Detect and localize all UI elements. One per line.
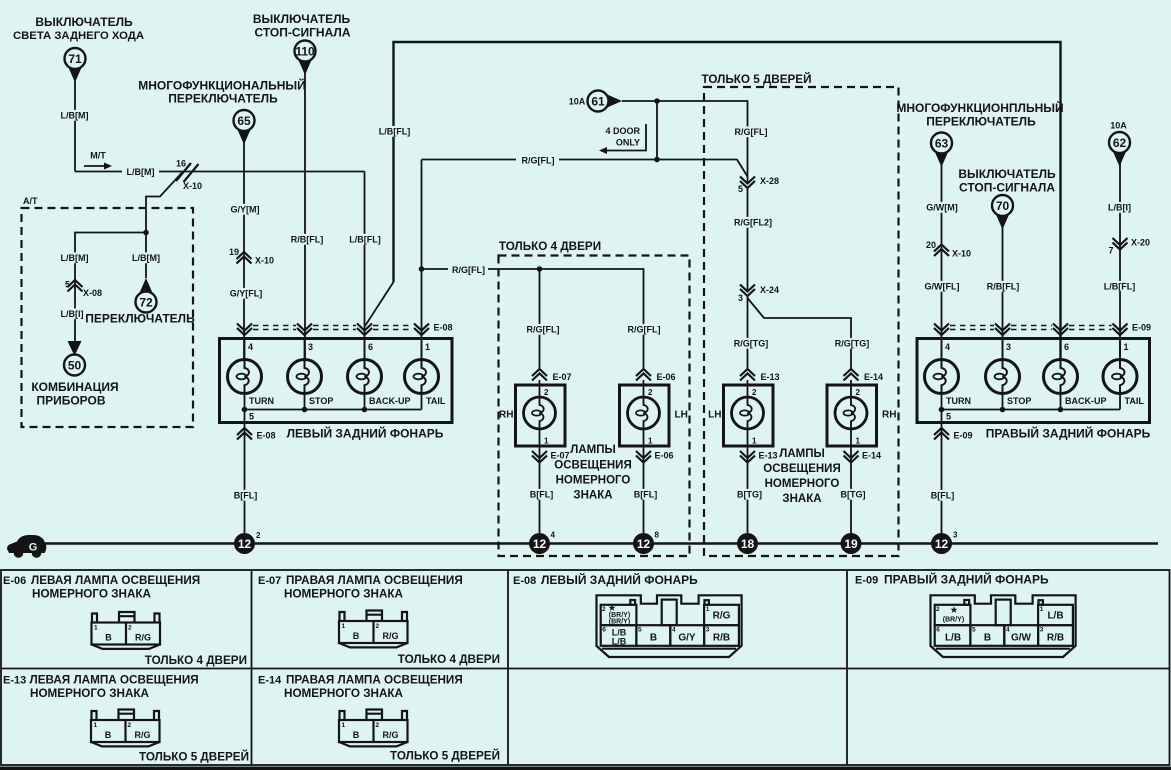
label L/B[I] bbox=[1106, 202, 1133, 213]
svg-text:TURN: TURN bbox=[946, 396, 971, 406]
svg-text:★: ★ bbox=[950, 606, 958, 615]
svg-text:B[FL]: B[FL] bbox=[530, 490, 554, 500]
connector E-06 bottom chevron bbox=[636, 451, 674, 463]
wire through lamp bbox=[747, 380, 749, 397]
wire bulb common bbox=[245, 409, 422, 411]
svg-text:12: 12 bbox=[637, 537, 651, 551]
junction at E-07 branch bbox=[537, 266, 543, 272]
svg-text:4: 4 bbox=[248, 342, 253, 352]
label L/B[I] bbox=[58, 308, 85, 319]
label B[FL] bbox=[232, 490, 259, 501]
svg-text:12: 12 bbox=[533, 537, 547, 551]
svg-text:R/G[FL]: R/G[FL] bbox=[628, 325, 661, 335]
svg-text:1: 1 bbox=[856, 437, 861, 446]
connector E-14 bottom chevron bbox=[844, 451, 882, 463]
wire branch to A/T bbox=[146, 172, 183, 279]
inline connector X-10 pin 16 bbox=[176, 159, 202, 192]
svg-text:71: 71 bbox=[68, 52, 82, 66]
wire below lamp bbox=[747, 429, 749, 534]
fuse 61 10A bbox=[569, 91, 622, 112]
svg-text:(BR/Y): (BR/Y) bbox=[609, 619, 630, 626]
label R/B[FL] right bbox=[985, 281, 1022, 292]
wire G/W from 63 to right lamp TURN bbox=[941, 164, 943, 361]
svg-text:4: 4 bbox=[551, 531, 556, 540]
svg-text:6: 6 bbox=[936, 627, 940, 634]
label L/B[M] on wire bbox=[122, 164, 159, 178]
svg-text:ВЫКЛЮЧАТЕЛЬ: ВЫКЛЮЧАТЕЛЬ bbox=[35, 15, 133, 29]
svg-text:ПРАВЫЙ ЗАДНИЙ ФОНАРЬ: ПРАВЫЙ ЗАДНИЙ ФОНАРЬ bbox=[986, 426, 1151, 441]
svg-text:RH: RH bbox=[882, 410, 896, 421]
wire L/B backup to left lamp bbox=[364, 172, 366, 361]
cell E-08 left tail lamp bbox=[513, 572, 698, 587]
svg-text:G/Y: G/Y bbox=[678, 633, 696, 644]
svg-text:72: 72 bbox=[139, 296, 153, 310]
svg-text:R/G[FL]: R/G[FL] bbox=[452, 265, 485, 275]
wire R/B from 70 to right lamp STOP bbox=[1002, 226, 1004, 360]
component label: stop light switch bbox=[253, 12, 351, 40]
label G/W[M] bbox=[927, 202, 957, 213]
svg-text:B[TG]: B[TG] bbox=[737, 490, 762, 500]
svg-text:L/B[I]: L/B[I] bbox=[1108, 203, 1131, 213]
svg-text:G/W[M]: G/W[M] bbox=[926, 203, 958, 213]
bulb STOP bbox=[288, 360, 322, 394]
svg-text:L/B[M]: L/B[M] bbox=[61, 111, 89, 121]
svg-text:3: 3 bbox=[308, 342, 313, 352]
label L/B[FL] bbox=[347, 234, 384, 245]
svg-text:X-10: X-10 bbox=[952, 249, 971, 259]
svg-text:3: 3 bbox=[706, 627, 710, 634]
svg-text:ПЕРЕКЛЮЧАТЕЛЬ: ПЕРЕКЛЮЧАТЕЛЬ bbox=[85, 312, 195, 326]
svg-text:STOP: STOP bbox=[309, 396, 333, 406]
tail lamp unit box ЛЕВЫЙ ЗАДНИЙ ФОНАРЬ bbox=[220, 339, 453, 423]
svg-text:НОМЕРНОГО: НОМЕРНОГО bbox=[765, 478, 840, 490]
svg-text:R/B[FL]: R/B[FL] bbox=[291, 235, 324, 245]
label M/T with arrow bbox=[84, 151, 112, 170]
svg-text:3: 3 bbox=[1006, 342, 1011, 352]
connector E-09 chevron pin wire bbox=[1053, 324, 1068, 336]
svg-text:5: 5 bbox=[738, 184, 743, 194]
cell E-14 right license lamp bbox=[258, 674, 463, 701]
label B[TG] bbox=[736, 489, 763, 500]
svg-text:G/Y[M]: G/Y[M] bbox=[231, 205, 260, 215]
wire junction drop bbox=[656, 101, 658, 160]
license plate lamp E-06 box bbox=[620, 385, 670, 446]
svg-text:ЛАМПЫ: ЛАМПЫ bbox=[570, 444, 615, 456]
svg-text:ОСВЕЩЕНИЯ: ОСВЕЩЕНИЯ bbox=[554, 460, 631, 472]
svg-text:L/B[FL]: L/B[FL] bbox=[349, 235, 381, 245]
bottom scan edge bbox=[0, 767, 1171, 770]
label R/B[FL] bbox=[289, 234, 326, 245]
wire diagonal into left lamp back-up connector bbox=[365, 282, 394, 326]
svg-text:НОМЕРНОГО ЗНАКА: НОМЕРНОГО ЗНАКА bbox=[32, 588, 152, 601]
svg-text:НОМЕРНОГО: НОМЕРНОГО bbox=[556, 475, 631, 487]
svg-text:2: 2 bbox=[602, 606, 606, 613]
svg-text:6: 6 bbox=[368, 342, 373, 352]
svg-text:ЛЕВАЯ ЛАМПА ОСВЕЩЕНИЯ: ЛЕВАЯ ЛАМПА ОСВЕЩЕНИЯ bbox=[31, 574, 200, 587]
svg-text:E-09: E-09 bbox=[855, 575, 878, 587]
svg-text:1: 1 bbox=[425, 342, 430, 352]
svg-text:3: 3 bbox=[1040, 627, 1044, 634]
svg-text:20: 20 bbox=[926, 240, 936, 250]
connector E-08 chevron pin wire bbox=[414, 324, 429, 336]
connector E-08 chevron pin wire bbox=[237, 324, 252, 336]
component label: multifunction switch bbox=[138, 78, 306, 106]
wire to E-07 lamp bbox=[539, 269, 541, 370]
svg-text:3: 3 bbox=[953, 531, 958, 540]
svg-text:G/W[FL]: G/W[FL] bbox=[925, 282, 960, 292]
connector E-13 bottom chevron bbox=[740, 451, 778, 463]
wire below lamp bbox=[539, 429, 541, 534]
svg-text:ЛЕВЫЙ ЗАДНИЙ ФОНАРЬ: ЛЕВЫЙ ЗАДНИЙ ФОНАРЬ bbox=[541, 572, 698, 587]
svg-text:ВЫКЛЮЧАТЕЛЬ: ВЫКЛЮЧАТЕЛЬ bbox=[958, 167, 1056, 181]
svg-text:BACK-UP: BACK-UP bbox=[1065, 396, 1107, 406]
svg-text:E-07: E-07 bbox=[553, 372, 572, 382]
label L/B[FL] right bbox=[1101, 281, 1138, 292]
svg-text:16: 16 bbox=[176, 159, 186, 169]
svg-text:L/B[FL]: L/B[FL] bbox=[1104, 282, 1136, 292]
wire into bulb bbox=[244, 339, 246, 361]
svg-text:ТОЛЬКО 4 ДВЕРИ: ТОЛЬКО 4 ДВЕРИ bbox=[398, 653, 500, 666]
svg-text:E-08: E-08 bbox=[434, 323, 453, 333]
cell E-13 left license lamp bbox=[3, 674, 199, 701]
svg-text:63: 63 bbox=[935, 137, 949, 151]
bulb STOP bbox=[986, 360, 1020, 394]
svg-text:НОМЕРНОГО ЗНАКА: НОМЕРНОГО ЗНАКА bbox=[284, 588, 404, 601]
wire into bulb bbox=[1002, 339, 1004, 361]
connector E-13 top chevron bbox=[740, 369, 780, 382]
svg-text:2: 2 bbox=[256, 531, 261, 540]
connector E-09 chevron pin wire bbox=[1113, 324, 1128, 336]
svg-text:STOP: STOP bbox=[1007, 396, 1031, 406]
svg-text:L/B[M]: L/B[M] bbox=[132, 253, 160, 263]
svg-text:ЛЕВАЯ ЛАМПА ОСВЕЩЕНИЯ: ЛЕВАЯ ЛАМПА ОСВЕЩЕНИЯ bbox=[30, 674, 199, 687]
label R/G[FL] left license wire bbox=[525, 324, 562, 335]
svg-text:110: 110 bbox=[295, 45, 315, 59]
svg-text:TAIL: TAIL bbox=[426, 396, 446, 406]
label: 5 doors only box bbox=[701, 73, 898, 556]
label: 4 doors only box bbox=[499, 240, 690, 556]
svg-text:2: 2 bbox=[752, 388, 757, 397]
svg-text:5: 5 bbox=[972, 627, 976, 634]
svg-text:62: 62 bbox=[1113, 136, 1127, 150]
svg-text:B[TG]: B[TG] bbox=[841, 490, 866, 500]
bulb bbox=[732, 397, 764, 429]
wire through lamp bbox=[643, 380, 645, 397]
wire into bulb bbox=[1119, 339, 1121, 361]
svg-text:50: 50 bbox=[68, 359, 82, 373]
label G/Y[FL] bbox=[228, 288, 265, 299]
connector E-06 top chevron bbox=[636, 369, 676, 382]
connector circle 110 bbox=[295, 41, 316, 76]
connector E-14 pinout bbox=[339, 710, 408, 747]
svg-text:4: 4 bbox=[945, 342, 950, 352]
connector E-07 pinout bbox=[339, 611, 408, 648]
svg-text:E-13: E-13 bbox=[3, 675, 26, 687]
svg-text:B[FL]: B[FL] bbox=[931, 491, 955, 501]
label R/G[FL] right license wire bbox=[626, 324, 663, 335]
wire R/B from 110 to left lamp STOP bbox=[304, 71, 306, 360]
bulb bbox=[835, 397, 867, 429]
svg-text:19: 19 bbox=[844, 537, 858, 551]
connector E-09 chevron pin wire bbox=[995, 324, 1010, 336]
ground dot 18 bbox=[737, 533, 758, 554]
svg-text:E-13: E-13 bbox=[759, 451, 778, 461]
svg-text:G/W: G/W bbox=[1011, 633, 1032, 644]
svg-text:МНОГОФУНКЦИОНАЛЬНЫЙ: МНОГОФУНКЦИОНАЛЬНЫЙ bbox=[138, 78, 306, 93]
svg-text:B: B bbox=[984, 633, 991, 644]
svg-text:E-09: E-09 bbox=[1132, 323, 1151, 333]
license plate lamp E-14 box bbox=[827, 385, 877, 446]
svg-text:E-06: E-06 bbox=[657, 372, 676, 382]
connector E-09 bottom chevron bbox=[934, 428, 973, 441]
connector E-06 pinout bbox=[92, 612, 161, 649]
label G/Y[M] bbox=[230, 204, 260, 215]
svg-text:E-14: E-14 bbox=[258, 675, 282, 687]
svg-text:RH: RH bbox=[499, 410, 513, 421]
label R/G[FL2] bbox=[732, 217, 775, 228]
svg-text:X-20: X-20 bbox=[1131, 238, 1150, 248]
connector circle 63 bbox=[931, 133, 952, 168]
label: license plate lamps (5-door) bbox=[763, 448, 840, 505]
svg-text:E-09: E-09 bbox=[954, 431, 973, 441]
label G/W[FL] bbox=[924, 281, 961, 292]
wire to E-13 lamp bbox=[747, 296, 749, 370]
svg-text:R/B[FL]: R/B[FL] bbox=[987, 282, 1020, 292]
table frame bbox=[1, 570, 1170, 765]
svg-text:X-10: X-10 bbox=[183, 181, 202, 191]
svg-text:LH: LH bbox=[708, 410, 721, 421]
label B[FL] bbox=[632, 489, 659, 500]
connector E-08 bottom chevron bbox=[237, 428, 276, 441]
svg-text:TAIL: TAIL bbox=[1125, 396, 1145, 406]
wire into bulb bbox=[1060, 339, 1062, 361]
cell E-06 left license lamp bbox=[3, 574, 200, 601]
svg-text:X-10: X-10 bbox=[255, 256, 274, 266]
svg-text:L/B: L/B bbox=[1047, 611, 1063, 622]
svg-text:A/T: A/T bbox=[23, 196, 38, 206]
wire R/G down to left lamp TAIL bbox=[421, 160, 423, 361]
svg-text:X-28: X-28 bbox=[760, 176, 779, 186]
svg-text:5: 5 bbox=[946, 412, 951, 422]
svg-text:НОМЕРНОГО ЗНАКА: НОМЕРНОГО ЗНАКА bbox=[30, 687, 150, 700]
wire through lamp bbox=[539, 380, 541, 397]
connector E-07 bottom chevron bbox=[532, 451, 570, 463]
component label: stop light switch (right) bbox=[958, 167, 1056, 195]
svg-text:4: 4 bbox=[672, 627, 676, 634]
arrow into 72 bbox=[136, 278, 157, 313]
svg-text:TURN: TURN bbox=[249, 396, 274, 406]
label L/B[FL] top bbox=[376, 126, 413, 137]
bulb TURN bbox=[228, 360, 262, 394]
label B[FL] bbox=[528, 489, 555, 500]
connector E-08 chevron pin wire bbox=[357, 324, 372, 336]
svg-text:ПЕРЕКЛЮЧАТЕЛЬ: ПЕРЕКЛЮЧАТЕЛЬ bbox=[168, 92, 278, 106]
svg-text:19: 19 bbox=[229, 247, 239, 257]
label R/G[FL] on branch wire bbox=[448, 262, 488, 276]
junction bbox=[143, 230, 149, 236]
svg-text:12: 12 bbox=[935, 537, 949, 551]
svg-text:СТОП-СИГНАЛА: СТОП-СИГНАЛА bbox=[959, 181, 1055, 195]
wire L/B from 62 to right lamp TAIL bbox=[1119, 163, 1121, 360]
bulb TURN bbox=[925, 360, 959, 394]
svg-text:ЗНАКА: ЗНАКА bbox=[782, 493, 821, 505]
ground dot 19 bbox=[841, 533, 862, 554]
svg-text:5: 5 bbox=[249, 412, 254, 422]
label R/G[TG] right bbox=[834, 338, 871, 349]
svg-text:1: 1 bbox=[648, 437, 653, 446]
wire below lamp bbox=[643, 429, 645, 534]
svg-text:E-08: E-08 bbox=[257, 431, 276, 441]
svg-text:2: 2 bbox=[544, 388, 549, 397]
connector circle 70 bbox=[992, 195, 1013, 230]
svg-text:R/G[FL2]: R/G[FL2] bbox=[734, 218, 772, 228]
wire top line to right lamp back-up bbox=[394, 42, 1061, 360]
svg-text:СВЕТА ЗАДНЕГО ХОДА: СВЕТА ЗАДНЕГО ХОДА bbox=[13, 30, 144, 42]
svg-text:ПРИБОРОВ: ПРИБОРОВ bbox=[36, 394, 105, 408]
svg-text:R/G[FL]: R/G[FL] bbox=[527, 325, 560, 335]
svg-text:L/B[M]: L/B[M] bbox=[127, 167, 155, 177]
annotation 4 DOOR ONLY bbox=[599, 124, 646, 154]
junction bbox=[654, 157, 660, 163]
component label: multifunction switch (right) bbox=[896, 100, 1063, 129]
connector E-13 pinout bbox=[91, 710, 160, 747]
svg-text:1: 1 bbox=[752, 437, 757, 446]
wire into bulb bbox=[421, 339, 423, 361]
svg-text:ТОЛЬКО 4 ДВЕРИ: ТОЛЬКО 4 ДВЕРИ bbox=[145, 654, 247, 667]
svg-text:E-08: E-08 bbox=[513, 575, 536, 587]
svg-text:R/G[TG]: R/G[TG] bbox=[734, 339, 769, 349]
connector X-28 pin 5 bbox=[738, 176, 779, 194]
wire into bulb bbox=[304, 339, 306, 361]
cell E-09 right tail lamp bbox=[855, 572, 1049, 587]
svg-text:B: B bbox=[650, 633, 657, 644]
svg-text:1: 1 bbox=[544, 437, 549, 446]
wire through lamp bbox=[850, 380, 852, 397]
license plate lamp E-13 box bbox=[724, 385, 774, 446]
svg-text:70: 70 bbox=[996, 199, 1010, 213]
wire R/G horizontal bbox=[422, 160, 748, 177]
bulb BACK-UP bbox=[348, 360, 382, 394]
svg-text:1: 1 bbox=[1040, 606, 1044, 613]
wire bulb common bbox=[942, 409, 1121, 411]
svg-text:X-24: X-24 bbox=[760, 285, 779, 295]
connector X-10 pin 20 bbox=[926, 240, 971, 259]
svg-text:ONLY: ONLY bbox=[616, 138, 640, 148]
bulb bbox=[628, 397, 660, 429]
bulb bbox=[524, 397, 556, 429]
svg-text:61: 61 bbox=[591, 95, 605, 109]
label L/B[M] bbox=[59, 110, 89, 121]
wire from fuse 61 bbox=[622, 101, 748, 184]
svg-text:5: 5 bbox=[638, 627, 642, 634]
label R/G[FL] 5-door bbox=[733, 126, 770, 137]
connector E-08 dashed boundary bbox=[253, 326, 413, 330]
svg-text:M/T: M/T bbox=[90, 151, 106, 161]
label L/B[M] left branch bbox=[59, 252, 89, 263]
bulb BACK-UP bbox=[1044, 360, 1078, 394]
svg-text:ПРАВАЯ ЛАМПА ОСВЕЩЕНИЯ: ПРАВАЯ ЛАМПА ОСВЕЩЕНИЯ bbox=[286, 674, 463, 687]
svg-text:1: 1 bbox=[1124, 342, 1129, 352]
svg-text:L/B[FL]: L/B[FL] bbox=[379, 127, 411, 137]
svg-text:L/B: L/B bbox=[945, 633, 961, 644]
svg-text:6: 6 bbox=[1064, 342, 1069, 352]
ground dot 12 bbox=[529, 531, 556, 555]
connector circle 71 bbox=[65, 48, 86, 83]
svg-text:2: 2 bbox=[856, 388, 861, 397]
svg-text:4: 4 bbox=[1006, 627, 1010, 634]
svg-text:E-14: E-14 bbox=[864, 372, 883, 382]
svg-text:ТОЛЬКО 5 ДВЕРЕЙ: ТОЛЬКО 5 ДВЕРЕЙ bbox=[701, 73, 811, 86]
svg-text:X-08: X-08 bbox=[83, 288, 102, 298]
svg-text:G/Y[FL]: G/Y[FL] bbox=[230, 289, 263, 299]
wire R/G[FL2] bbox=[747, 188, 749, 292]
ground node 12 (left lamp) bbox=[234, 531, 261, 554]
svg-text:ВЫКЛЮЧАТЕЛЬ: ВЫКЛЮЧАТЕЛЬ bbox=[253, 12, 351, 26]
svg-text:2: 2 bbox=[648, 388, 653, 397]
wire R/G into 4-door box bbox=[422, 269, 644, 370]
junction R/G branch bbox=[419, 266, 425, 272]
wire horizontal M/T line bbox=[75, 171, 365, 173]
tail lamp unit box ПРАВЫЙ ЗАДНИЙ ФОНАРЬ bbox=[917, 339, 1150, 423]
svg-text:1: 1 bbox=[706, 606, 710, 613]
svg-text:МНОГОФУНКЦИОНПЛЬНЫЙ: МНОГОФУНКЦИОНПЛЬНЫЙ bbox=[896, 100, 1063, 115]
license plate lamp E-07 box bbox=[516, 385, 566, 446]
svg-text:R/G[FL]: R/G[FL] bbox=[735, 127, 768, 137]
fuse 62 10A bbox=[1109, 121, 1130, 167]
wire branch to E-14 lamp bbox=[748, 298, 852, 370]
svg-text:ЛАМПЫ: ЛАМПЫ bbox=[779, 448, 824, 460]
ground node 12 (right lamp) bbox=[931, 531, 958, 555]
svg-text:2: 2 bbox=[936, 606, 940, 613]
svg-text:E-13: E-13 bbox=[761, 372, 780, 382]
connector pinout E-09 bbox=[931, 595, 1076, 657]
svg-text:E-06: E-06 bbox=[3, 575, 26, 587]
svg-text:ПРАВЫЙ ЗАДНИЙ ФОНАРЬ: ПРАВЫЙ ЗАДНИЙ ФОНАРЬ bbox=[884, 572, 1049, 587]
svg-text:G: G bbox=[29, 542, 38, 554]
svg-text:B[FL]: B[FL] bbox=[634, 490, 658, 500]
label: license plate lamps (4-door) bbox=[554, 444, 631, 502]
wire to X-08 branch bbox=[75, 233, 146, 342]
svg-text:L/B[I]: L/B[I] bbox=[61, 309, 84, 319]
connector E-09 chevron pin wire bbox=[934, 324, 949, 336]
connector X-08 pin 5 bbox=[65, 280, 102, 299]
svg-text:4 DOOR: 4 DOOR bbox=[605, 126, 640, 136]
connector E-08 chevron pin wire bbox=[297, 324, 312, 336]
label B[TG] bbox=[839, 489, 866, 500]
connector E-09 dashed boundary bbox=[950, 326, 1112, 330]
svg-text:E-06: E-06 bbox=[655, 451, 674, 461]
ground dot 12 bbox=[633, 531, 660, 555]
label R/G[FL] on wire bbox=[516, 153, 559, 167]
wire pin5 to ground bbox=[941, 410, 943, 534]
wire into bulb bbox=[364, 339, 366, 361]
junction at fuse line bbox=[654, 98, 660, 104]
svg-text:65: 65 bbox=[237, 114, 251, 128]
wire L/B[M] from 71 bbox=[74, 79, 76, 172]
svg-text:E-14: E-14 bbox=[862, 451, 881, 461]
svg-text:6: 6 bbox=[602, 627, 606, 634]
cell E-07 right license lamp bbox=[258, 574, 463, 601]
svg-text:R/G[FL]: R/G[FL] bbox=[522, 156, 555, 166]
svg-text:8: 8 bbox=[655, 531, 660, 540]
connector E-14 top chevron bbox=[844, 369, 884, 382]
svg-text:ТОЛЬКО 5 ДВЕРЕЙ: ТОЛЬКО 5 ДВЕРЕЙ bbox=[390, 750, 500, 763]
svg-text:E-07: E-07 bbox=[258, 575, 281, 587]
label: instrument cluster bbox=[31, 380, 118, 408]
bulb TAIL bbox=[1103, 360, 1137, 394]
svg-text:10A: 10A bbox=[1110, 121, 1127, 131]
svg-text:12: 12 bbox=[238, 537, 252, 551]
